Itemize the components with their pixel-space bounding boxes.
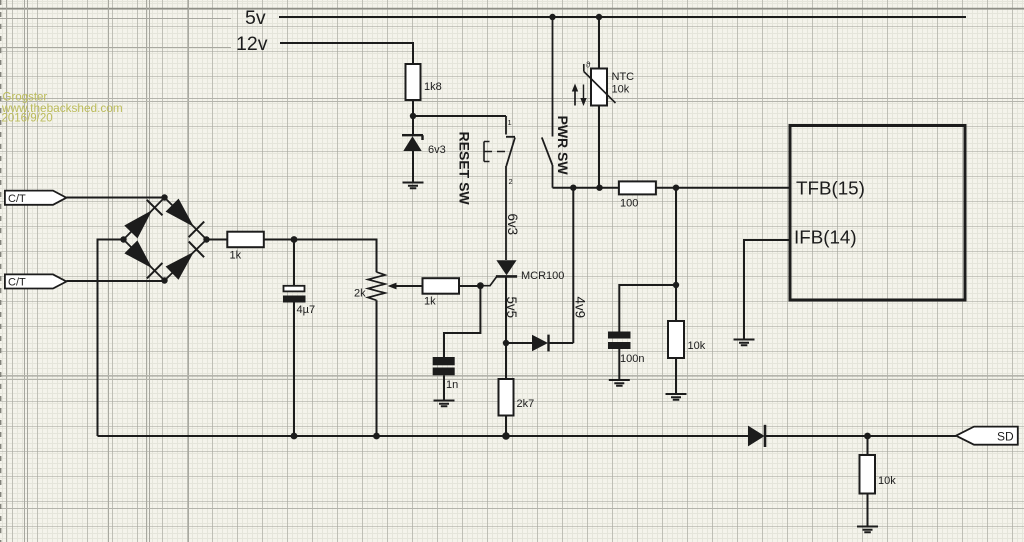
IC block U1	[790, 126, 965, 301]
svg-text:C/T: C/T	[8, 193, 26, 205]
wire C/T top to bridge	[66, 197, 164, 199]
svg-text:12v: 12v	[236, 33, 268, 55]
resistor 1k gate	[423, 278, 460, 307]
svg-text:4µ7: 4µ7	[297, 304, 316, 316]
pot wiper arrow	[388, 283, 423, 290]
svg-text:2: 2	[509, 177, 513, 186]
wire IFB to ground	[744, 240, 790, 339]
svg-text:1n: 1n	[446, 379, 458, 391]
junction SCR cathode node	[503, 340, 509, 346]
junction 4u7 tap	[291, 236, 298, 243]
svg-text:IFB(14): IFB(14)	[794, 227, 857, 248]
wire 5v rail	[279, 16, 966, 18]
bridge diode lower-left	[124, 240, 162, 278]
svg-text:10k: 10k	[878, 475, 896, 487]
net label 6v3 vertical	[505, 214, 520, 236]
net label 5v5 vertical	[504, 297, 519, 319]
junction on 5v rail at NTC	[596, 14, 602, 20]
wire 100n to ground	[618, 349, 620, 380]
ground below 10k pulldown	[857, 527, 878, 533]
svg-text:1k: 1k	[230, 250, 242, 262]
svg-text:2k: 2k	[354, 288, 366, 300]
wire 100n tap	[619, 285, 676, 332]
bridge node top	[161, 194, 167, 200]
resistor 1k8	[406, 64, 442, 100]
wire bridge right to 1k	[207, 239, 228, 241]
svg-text:6v3: 6v3	[505, 214, 520, 236]
wire 10k to ground	[867, 494, 869, 527]
power switch PWR SW	[542, 17, 553, 188]
junction 10k branch	[673, 185, 679, 191]
svg-text:2k7: 2k7	[517, 398, 535, 410]
diode on bus to SD	[748, 425, 765, 447]
wire 2k7 to bus	[505, 416, 507, 437]
net label 12v	[236, 33, 268, 55]
svg-text:TFB(15): TFB(15)	[796, 178, 865, 199]
svg-text:MCR100: MCR100	[521, 270, 564, 282]
resistor 1k bridge output	[227, 232, 263, 262]
bus wire bottom	[98, 435, 957, 437]
pin label TFB(15)	[796, 178, 865, 199]
svg-text:ϑ: ϑ	[586, 60, 591, 70]
svg-text:10k: 10k	[612, 84, 630, 96]
bridge diamond wires	[124, 198, 207, 281]
wire 1k to gate node	[459, 285, 480, 287]
svg-text:C/T: C/T	[8, 277, 26, 289]
ground below 1n	[434, 401, 455, 407]
connector tag C/T bottom	[5, 274, 67, 288]
zener diode 6v3	[402, 135, 446, 182]
svg-text:NTC: NTC	[612, 71, 635, 83]
label PWR SW	[555, 116, 571, 176]
svg-text:10k: 10k	[688, 340, 706, 352]
junction on 5v rail at PWR SW	[549, 14, 555, 20]
node junction 1k8/zener/reset	[410, 113, 416, 119]
svg-text:5v5: 5v5	[504, 297, 519, 319]
bridge diode upper-right	[166, 199, 205, 238]
resistor 2k7	[499, 343, 535, 416]
wire down to 10k	[675, 188, 677, 321]
thyristor MCR100	[480, 260, 564, 285]
wire diode to 4v9 riser	[549, 188, 574, 343]
junction 10k pulldown	[864, 433, 871, 440]
NTC thermistor	[584, 17, 616, 188]
bridge node left	[120, 236, 126, 242]
wire bridge left to bus	[98, 240, 124, 437]
reset switch pin 1	[508, 118, 512, 127]
wire SCR cathode down	[505, 276, 507, 343]
title text	[1, 92, 123, 125]
wire node to RESET SW pin1	[413, 115, 506, 117]
svg-text:SD: SD	[997, 430, 1014, 444]
wire 2k to bus	[376, 300, 378, 436]
svg-text:RESET SW: RESET SW	[457, 132, 473, 206]
svg-text:5v: 5v	[245, 7, 266, 29]
wire 1k8 to zener	[412, 100, 414, 135]
wire 4u7 to bus	[293, 303, 295, 437]
wire gate node to 1n	[444, 286, 480, 357]
svg-text:PWR SW: PWR SW	[555, 116, 571, 176]
wire 10k to ground	[675, 358, 677, 394]
wire to 10k pulldown	[867, 436, 869, 455]
label NTC 10k	[612, 71, 635, 96]
junction 100n tap	[673, 282, 679, 288]
svg-text:6v3: 6v3	[428, 144, 446, 156]
wire C/T bottom to bridge	[66, 280, 164, 283]
potentiometer 2k zigzag	[354, 272, 385, 300]
connector tag C/T top	[5, 191, 67, 205]
bridge node bottom	[161, 277, 167, 283]
pin label IFB(14)	[794, 227, 857, 248]
resistor 100	[619, 181, 656, 209]
junction 4u7 on bus	[291, 433, 298, 440]
wire 12v to R 1k8	[280, 43, 413, 64]
svg-text:1k8: 1k8	[424, 81, 442, 93]
capacitor 1n	[433, 357, 459, 391]
junction 2k7 on bus	[502, 432, 510, 440]
capacitor 100n	[608, 332, 644, 366]
resistor 10k pulldown	[860, 455, 897, 494]
reset switch pin 2	[509, 177, 513, 186]
resistor 10k	[668, 321, 706, 358]
bridge diode upper-left	[124, 200, 162, 239]
wire 1n to ground	[443, 375, 445, 400]
ground below zener	[403, 183, 424, 189]
svg-text:100: 100	[620, 198, 638, 210]
capacitor 4u7 polarized	[283, 240, 315, 317]
ground below 100n	[609, 380, 630, 386]
svg-text:1k: 1k	[424, 296, 436, 308]
junction NTC bottom	[596, 185, 602, 191]
svg-text:1: 1	[508, 118, 512, 127]
svg-text:4v9: 4v9	[573, 297, 588, 319]
label RESET SW	[457, 132, 473, 206]
junction 2k on bus	[373, 433, 380, 440]
wire 1k to 2k corner	[264, 240, 377, 273]
bridge diode lower-right	[166, 242, 205, 280]
bridge node right	[203, 236, 209, 242]
diode to 4v9	[532, 335, 549, 352]
wire TFB node line	[553, 187, 791, 189]
net label 5v	[245, 7, 266, 29]
net label 4v9 vertical	[573, 297, 588, 319]
junction 4v9 drop	[570, 185, 576, 191]
junction gate node	[477, 282, 484, 289]
reset switch RESET SW	[484, 116, 515, 260]
ground below 10k	[666, 394, 687, 400]
ground on IFB	[734, 340, 755, 346]
NTC arrows	[572, 84, 587, 107]
svg-text:2016/9/20: 2016/9/20	[2, 112, 53, 124]
svg-text:100n: 100n	[620, 353, 644, 365]
connector tag SD	[956, 427, 1018, 445]
wire node to diode	[506, 342, 532, 344]
